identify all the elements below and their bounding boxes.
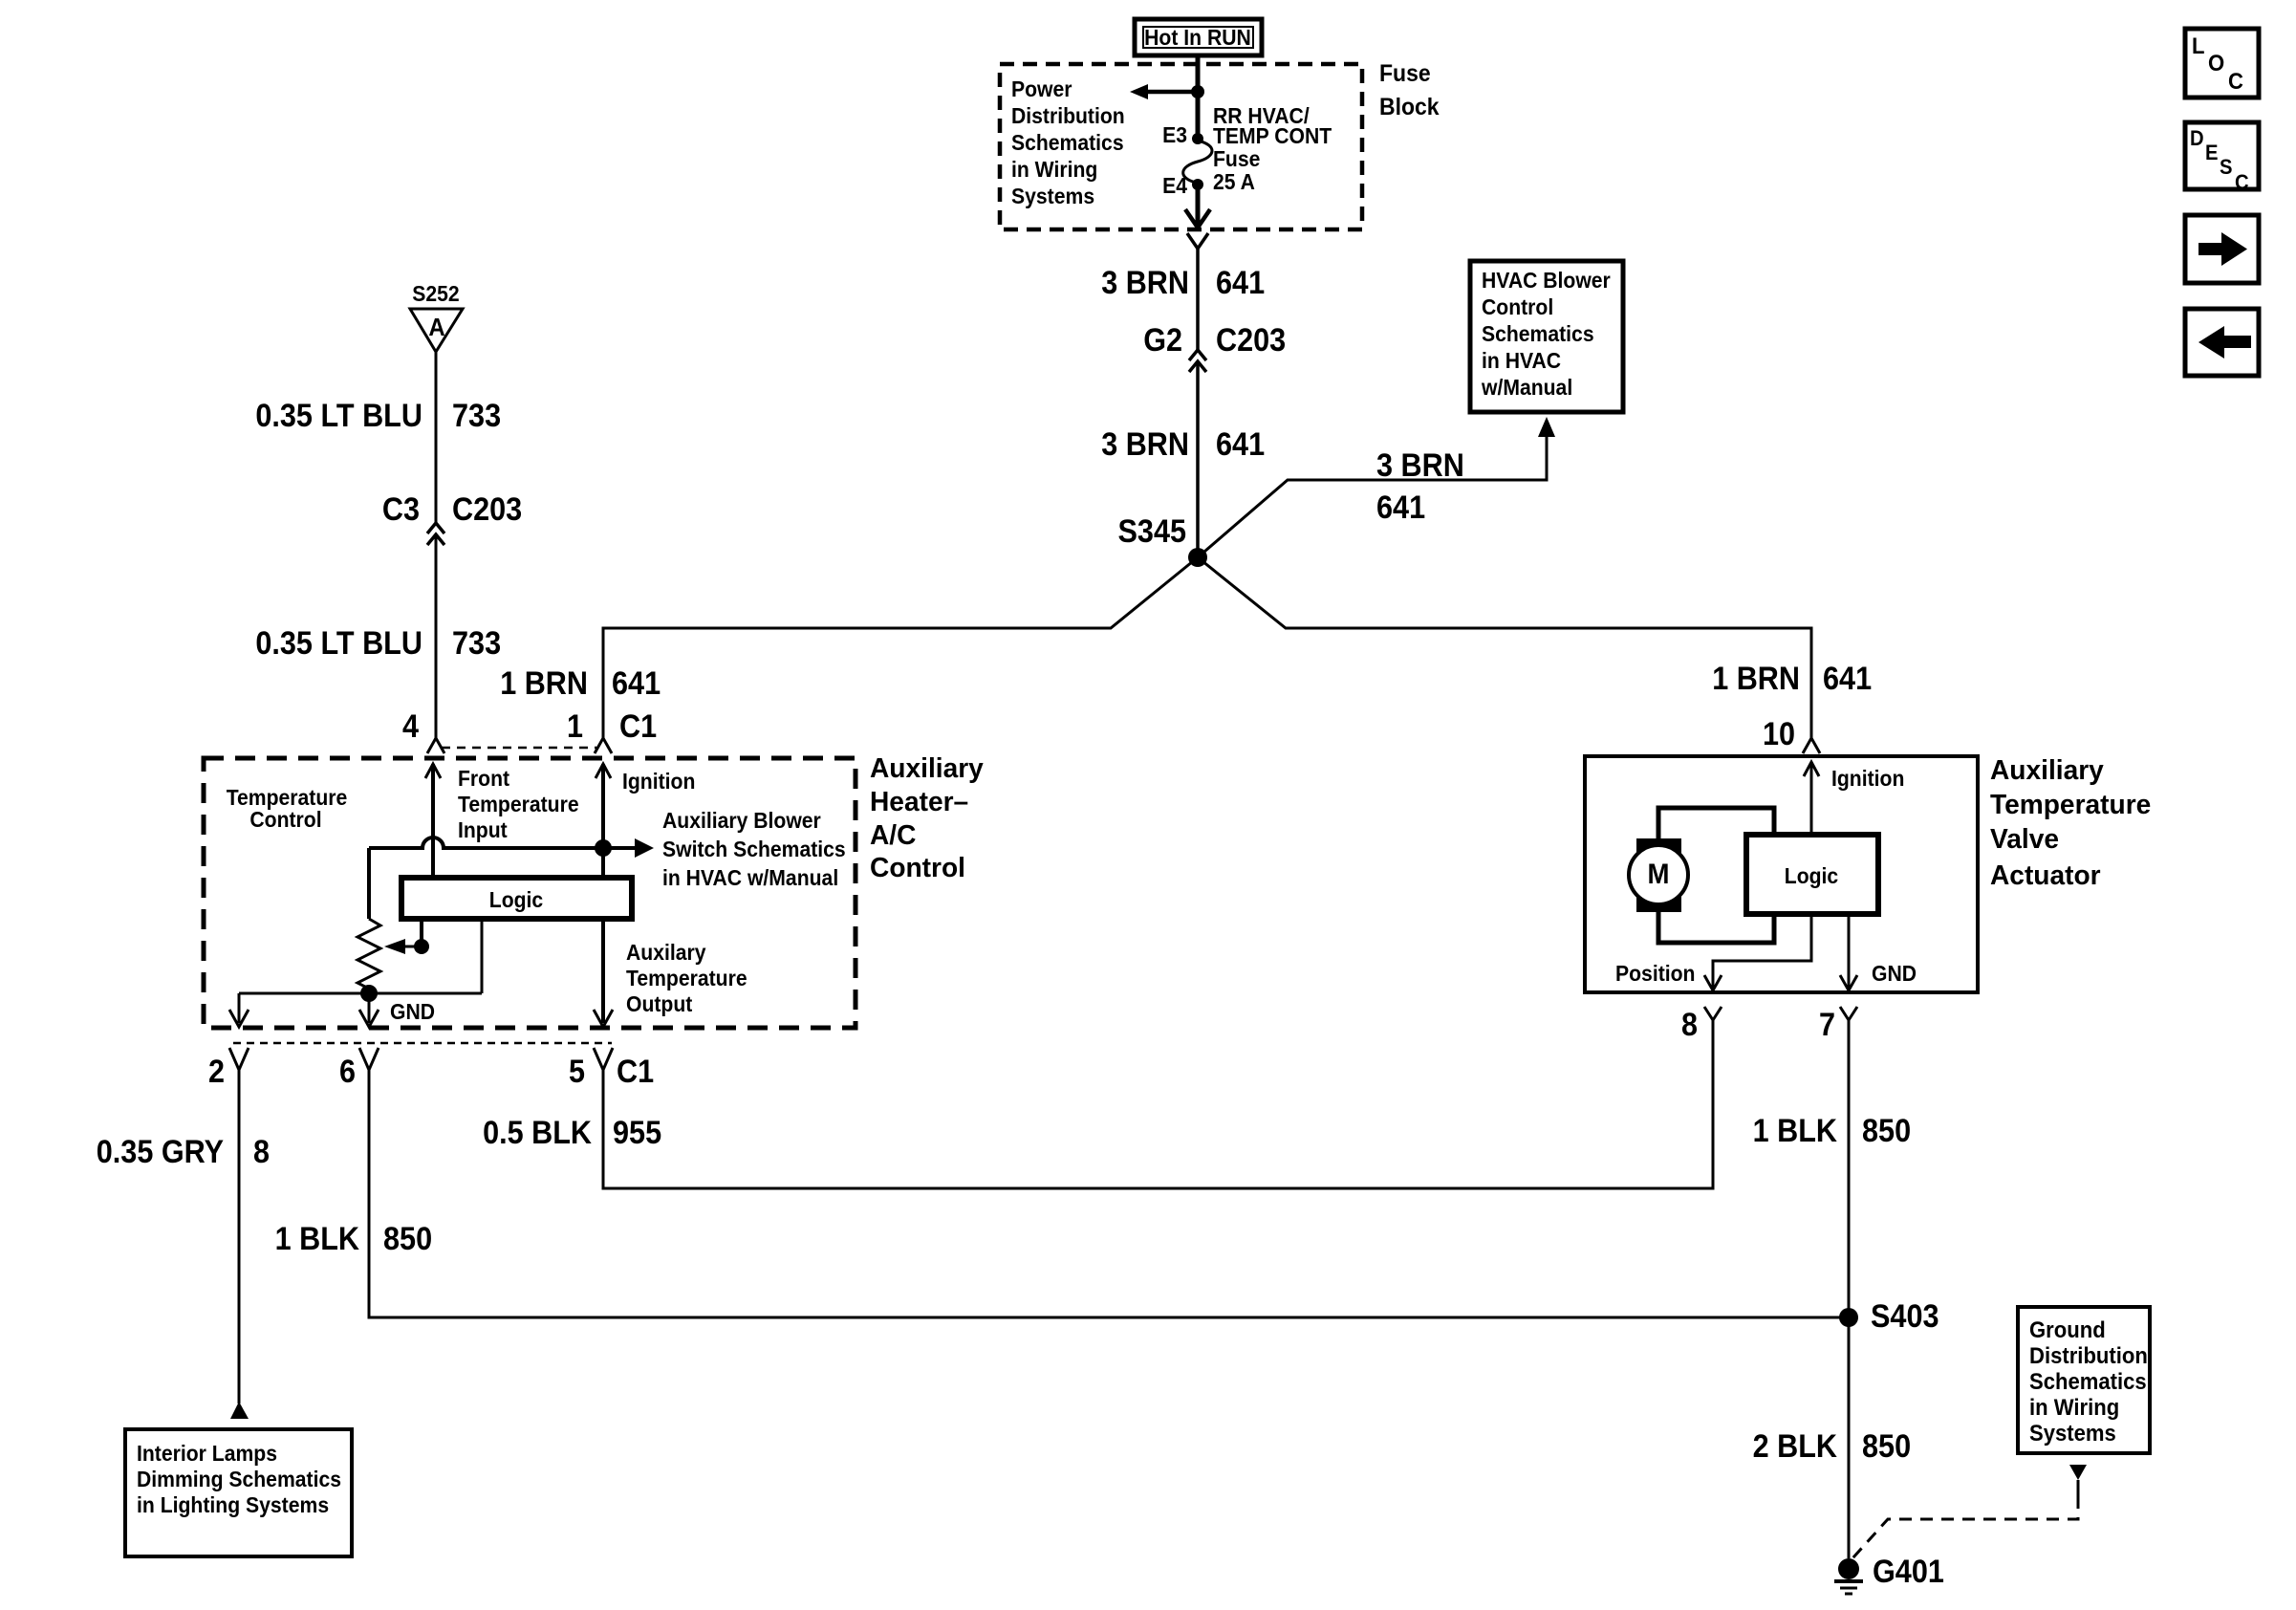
svg-text:Schematics: Schematics (2029, 1369, 2147, 1395)
svg-text:Hot In RUN: Hot In RUN (1144, 25, 1251, 50)
svg-text:E: E (2205, 141, 2219, 164)
svg-text:1 BLK: 1 BLK (275, 1221, 360, 1257)
svg-text:Distribution: Distribution (2029, 1343, 2148, 1369)
svg-text:Systems: Systems (1011, 184, 1094, 208)
svg-text:Control: Control (249, 807, 321, 832)
svg-text:in Wiring: in Wiring (1011, 157, 1097, 182)
svg-text:3 BRN: 3 BRN (1376, 447, 1464, 484)
svg-text:C1: C1 (617, 1054, 654, 1090)
svg-text:2 BLK: 2 BLK (1753, 1428, 1838, 1465)
svg-text:Power: Power (1011, 76, 1072, 101)
svg-text:Systems: Systems (2029, 1421, 2116, 1447)
svg-text:955: 955 (613, 1115, 661, 1151)
svg-text:Logic: Logic (489, 887, 544, 912)
svg-text:GND: GND (390, 999, 435, 1024)
svg-text:0.35 GRY: 0.35 GRY (97, 1134, 224, 1170)
svg-text:Valve: Valve (1990, 824, 2059, 855)
svg-text:HVAC Blower: HVAC Blower (1482, 268, 1611, 293)
svg-text:S252: S252 (412, 281, 459, 306)
svg-text:w/Manual: w/Manual (1481, 375, 1572, 400)
svg-text:Ignition: Ignition (622, 769, 695, 794)
svg-text:S403: S403 (1871, 1298, 1939, 1335)
svg-text:3 BRN: 3 BRN (1101, 265, 1189, 301)
svg-text:Schematics: Schematics (1482, 321, 1594, 346)
svg-text:Control: Control (870, 853, 965, 883)
svg-text:Ground: Ground (2029, 1317, 2106, 1343)
svg-text:641: 641 (1216, 426, 1265, 463)
svg-text:1 BRN: 1 BRN (500, 665, 588, 702)
svg-text:C203: C203 (1216, 322, 1286, 359)
svg-text:Auxiliary: Auxiliary (870, 753, 984, 784)
svg-text:L: L (2192, 33, 2205, 59)
svg-text:M: M (1648, 859, 1670, 890)
svg-text:0.35 LT BLU: 0.35 LT BLU (255, 398, 422, 434)
svg-text:Control: Control (1482, 294, 1553, 319)
svg-text:in HVAC w/Manual: in HVAC w/Manual (662, 865, 838, 890)
svg-text:850: 850 (383, 1221, 432, 1257)
svg-text:Position: Position (1615, 961, 1696, 986)
svg-text:0.35 LT BLU: 0.35 LT BLU (255, 625, 422, 662)
svg-text:O: O (2208, 51, 2224, 76)
svg-text:Logic: Logic (1785, 863, 1839, 888)
svg-text:1: 1 (567, 708, 583, 745)
svg-text:Temperature: Temperature (626, 966, 747, 990)
svg-text:Fuse: Fuse (1213, 146, 1260, 171)
svg-text:E4: E4 (1162, 173, 1187, 198)
svg-text:25 A: 25 A (1213, 169, 1255, 194)
svg-text:641: 641 (612, 665, 661, 702)
svg-text:C3: C3 (382, 491, 420, 528)
svg-text:850: 850 (1862, 1428, 1911, 1465)
svg-text:C: C (2228, 69, 2243, 95)
svg-text:3 BRN: 3 BRN (1101, 426, 1189, 463)
svg-text:Distribution: Distribution (1011, 103, 1125, 128)
svg-text:Switch Schematics: Switch Schematics (662, 837, 846, 861)
svg-text:Auxilary: Auxilary (626, 940, 706, 965)
svg-text:7: 7 (1819, 1007, 1835, 1043)
svg-text:Interior Lamps: Interior Lamps (137, 1441, 277, 1466)
svg-text:Auxiliary Blower: Auxiliary Blower (662, 808, 821, 833)
svg-text:Actuator: Actuator (1990, 860, 2101, 891)
svg-text:5: 5 (569, 1054, 585, 1090)
svg-text:S345: S345 (1118, 513, 1187, 550)
svg-text:C: C (2235, 170, 2249, 194)
svg-text:in Wiring: in Wiring (2029, 1395, 2119, 1421)
svg-text:641: 641 (1376, 490, 1425, 526)
svg-text:1 BLK: 1 BLK (1753, 1113, 1838, 1149)
svg-text:Block: Block (1379, 94, 1440, 120)
svg-text:C1: C1 (619, 708, 657, 745)
svg-text:2: 2 (208, 1054, 225, 1090)
svg-text:850: 850 (1862, 1113, 1911, 1149)
svg-text:8: 8 (1681, 1007, 1698, 1043)
svg-text:TEMP CONT: TEMP CONT (1213, 123, 1332, 148)
svg-text:0.5 BLK: 0.5 BLK (483, 1115, 592, 1151)
svg-text:1 BRN: 1 BRN (1712, 661, 1800, 697)
svg-text:G2: G2 (1143, 322, 1182, 359)
svg-text:S: S (2220, 155, 2233, 179)
svg-text:G401: G401 (1873, 1554, 1944, 1590)
svg-text:in Lighting Systems: in Lighting Systems (137, 1492, 329, 1517)
svg-text:641: 641 (1216, 265, 1265, 301)
svg-text:733: 733 (452, 625, 501, 662)
svg-text:D: D (2190, 126, 2204, 150)
svg-text:GND: GND (1872, 961, 1917, 986)
svg-text:4: 4 (402, 708, 419, 745)
svg-text:Fuse: Fuse (1379, 60, 1431, 87)
svg-text:733: 733 (452, 398, 501, 434)
svg-text:Temperature: Temperature (458, 792, 579, 816)
svg-text:C203: C203 (452, 491, 522, 528)
svg-text:Ignition: Ignition (1831, 766, 1904, 791)
svg-text:Input: Input (458, 817, 508, 842)
svg-text:Temperature: Temperature (1990, 790, 2151, 820)
svg-text:in HVAC: in HVAC (1482, 348, 1561, 373)
svg-text:Auxiliary: Auxiliary (1990, 755, 2104, 786)
svg-text:A: A (428, 313, 445, 341)
svg-text:Heater–: Heater– (870, 787, 968, 817)
svg-text:6: 6 (339, 1054, 356, 1090)
svg-text:Output: Output (626, 991, 693, 1016)
svg-text:10: 10 (1763, 716, 1795, 752)
svg-text:Schematics: Schematics (1011, 130, 1124, 155)
svg-text:Front: Front (458, 766, 509, 791)
svg-text:E3: E3 (1162, 122, 1187, 147)
svg-text:Dimming Schematics: Dimming Schematics (137, 1467, 341, 1491)
svg-text:641: 641 (1823, 661, 1872, 697)
svg-text:A/C: A/C (870, 820, 916, 851)
svg-text:8: 8 (253, 1134, 270, 1170)
